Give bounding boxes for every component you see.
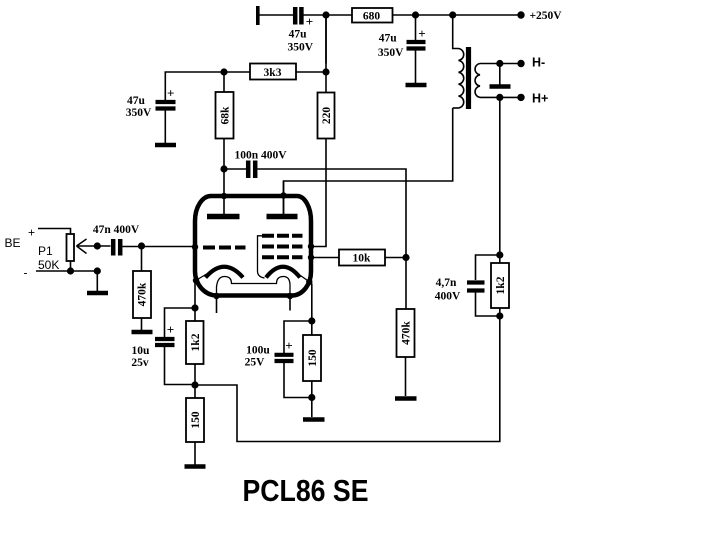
node: 10u top junction xyxy=(191,304,198,311)
svg-text:3k3: 3k3 xyxy=(264,67,282,79)
wire triode cathode down xyxy=(194,281,196,321)
input terminal bar (B+ feed) xyxy=(256,6,260,25)
wire pentode g1 to 10k xyxy=(311,257,339,259)
resistor 1k2 (right, feedback) xyxy=(491,263,509,308)
wire rail down to 3k3 junction xyxy=(325,15,327,72)
node: 10k / 470k junction xyxy=(402,254,409,261)
P1 wiper arrow xyxy=(77,239,87,246)
svg-text:+250V: +250V xyxy=(530,10,563,22)
wire 100u top lead xyxy=(284,321,312,353)
svg-text:25V: 25V xyxy=(245,357,266,369)
capacitor C3 47u 350V (shunt, left) xyxy=(156,102,176,109)
ground (below pentode 470k) xyxy=(395,396,417,401)
wire 10k right to node xyxy=(385,257,406,259)
wire to 4,7n top xyxy=(476,255,500,280)
wire 1k2 leads xyxy=(499,255,501,263)
svg-text:4,7n: 4,7n xyxy=(436,277,457,289)
svg-text:PCL86 SE: PCL86 SE xyxy=(243,473,369,508)
wire node to 100n cap xyxy=(224,168,246,170)
wire transformer primary top lead xyxy=(453,15,459,49)
svg-text:150: 150 xyxy=(190,411,202,429)
node: grid / 470k junction xyxy=(138,242,145,249)
wire 220 top from rail xyxy=(325,15,327,64)
H- terminal dot xyxy=(517,60,524,67)
wire C2 top lead xyxy=(415,15,417,40)
wire 100u bottom lead xyxy=(284,363,312,398)
node: ground corner junction xyxy=(94,267,101,274)
resistor 680 xyxy=(352,8,393,23)
triode grid (dashed) xyxy=(203,246,246,250)
svg-text:1k2: 1k2 xyxy=(190,333,202,351)
wire 680 to +250V terminal xyxy=(393,14,522,16)
triode cathode arc xyxy=(206,267,244,278)
node: 3k3 / 220 junction xyxy=(322,68,329,75)
wire C3 to ground xyxy=(164,111,166,144)
svg-text:150: 150 xyxy=(307,349,319,367)
capacitor 100n 400V xyxy=(248,161,255,179)
pin dot: pentode g1 xyxy=(308,254,314,260)
transformer primary winding xyxy=(459,49,464,109)
svg-text:10k: 10k xyxy=(353,253,372,265)
ground (input) xyxy=(87,291,108,296)
resistor 220 xyxy=(318,93,335,139)
svg-text:1k2: 1k2 xyxy=(495,276,507,294)
wire 150 bottom to ground xyxy=(194,442,196,465)
H+ terminal dot xyxy=(517,94,524,101)
svg-text:400V: 400V xyxy=(435,290,461,302)
resistor 3k3 xyxy=(250,64,296,80)
pentode anode plate xyxy=(267,214,298,220)
ground (below right 150) xyxy=(303,417,325,422)
wire C2 bottom to ground xyxy=(415,51,417,84)
svg-text:+: + xyxy=(167,322,174,337)
node: 100u top junction xyxy=(308,317,315,324)
capacitor C1 47u 350V (series, top-left) xyxy=(295,7,301,25)
wire H+ line xyxy=(480,96,521,98)
wire down to ground xyxy=(311,398,313,418)
wire down to input ground xyxy=(96,271,98,291)
svg-text:100n 400V: 100n 400V xyxy=(234,149,287,161)
wire terminal to C1 xyxy=(259,14,293,16)
svg-text:68k: 68k xyxy=(219,106,231,125)
svg-text:470k: 470k xyxy=(137,282,149,306)
capacitor 4,7n 400V xyxy=(467,283,485,291)
node: H- junction xyxy=(496,60,503,67)
+250V terminal dot xyxy=(517,11,524,18)
wire 10u bottom lead xyxy=(165,347,196,385)
svg-text:+: + xyxy=(418,26,425,41)
svg-text:+: + xyxy=(167,85,174,100)
pin dot: pentode g2 xyxy=(308,243,314,249)
tube PCL86 envelope xyxy=(195,196,311,296)
wire H- line xyxy=(480,63,521,65)
svg-text:-: - xyxy=(24,266,28,280)
wire 1k2 bottom to node xyxy=(194,364,196,398)
svg-text:47u: 47u xyxy=(127,95,146,107)
capacitor 10u 25v xyxy=(155,339,175,345)
node: triode anode / 100n junction xyxy=(220,165,227,172)
pentode cathode arc xyxy=(266,267,300,278)
wire wiper to 47n xyxy=(77,245,111,247)
ground (below 470k) xyxy=(132,330,153,335)
wire 10u top lead xyxy=(165,308,196,337)
pentode grid g1 (dashed) xyxy=(262,255,303,259)
wire 470k top lead xyxy=(141,246,143,271)
BE + input wire to pot top xyxy=(38,229,71,235)
heater filament xyxy=(217,277,291,296)
svg-text:+: + xyxy=(28,226,35,240)
resistor 1k2 (triode cathode) xyxy=(186,321,204,364)
pentode grid g2 (dashed) xyxy=(262,245,303,249)
svg-text:47n 400V: 47n 400V xyxy=(93,224,140,236)
svg-text:350V: 350V xyxy=(378,47,404,59)
svg-text:H+: H+ xyxy=(532,92,548,106)
capacitor C2 47u 350V (shunt, right) xyxy=(407,42,426,49)
wire feedback path to cathode network xyxy=(195,316,500,442)
pentode cathode lead (inside) xyxy=(298,274,310,282)
svg-text:50K: 50K xyxy=(38,258,59,272)
resistor 150 (left) xyxy=(186,398,204,442)
node: top of 1k2/4.7n xyxy=(496,251,503,258)
node: 100u bottom junction xyxy=(308,394,315,401)
svg-text:47u: 47u xyxy=(379,33,398,45)
pentode grid g3 (dashed) xyxy=(262,234,303,238)
resistor 68k xyxy=(216,92,234,139)
svg-text:P1: P1 xyxy=(38,244,53,258)
svg-text:350V: 350V xyxy=(288,41,314,53)
wire 470k bottom to ground xyxy=(405,357,407,396)
ground (below C3) xyxy=(155,143,176,148)
svg-text:BE: BE xyxy=(5,236,21,250)
wire junction down to 220 xyxy=(325,72,327,93)
capacitor 100u 25V xyxy=(275,355,294,361)
node: 68k top junction xyxy=(220,68,227,75)
pin dot: triode anode xyxy=(221,193,227,199)
ground (below C2) xyxy=(406,83,427,88)
wire 68k bottom to anode node xyxy=(223,139,225,170)
wire pot bottom lead xyxy=(70,261,72,271)
g3 to cathode tie xyxy=(258,236,265,278)
svg-text:220: 220 xyxy=(321,107,333,125)
wire 220 bottom to g2 pin xyxy=(311,139,326,247)
node: rail junction above transformer xyxy=(449,11,456,18)
svg-text:+: + xyxy=(285,338,292,353)
ground (heater) xyxy=(490,84,511,89)
pin dot: triode cathode xyxy=(193,277,199,283)
wire H- junction to ground xyxy=(499,64,501,85)
wire 3k3 left to C3 top xyxy=(165,72,250,100)
wire 150 leads xyxy=(311,321,313,335)
resistor 150 (pentode cathode) xyxy=(303,335,321,381)
svg-text:100u: 100u xyxy=(246,345,270,357)
svg-text:350V: 350V xyxy=(126,107,152,119)
svg-text:25v: 25v xyxy=(131,357,149,369)
heater pin stub right xyxy=(289,296,291,311)
node: bottom of 1k2/4.7n xyxy=(496,312,503,319)
pentode anode lead xyxy=(283,181,285,216)
potentiometer P1 50K body xyxy=(67,234,75,261)
svg-text:47u: 47u xyxy=(289,29,308,41)
node: wiper junction xyxy=(94,242,101,249)
wire pentode cathode down xyxy=(309,282,312,321)
heater pin stub left xyxy=(216,296,218,313)
pin dot: triode grid xyxy=(192,244,198,250)
resistor 470k (grid leak) xyxy=(133,271,151,318)
wire 4,7n bottom xyxy=(476,293,500,317)
node: cathode network junction xyxy=(191,381,198,388)
pin dot: heater left xyxy=(213,293,219,299)
svg-text:H-: H- xyxy=(532,56,545,70)
resistor 470k (pentode grid) xyxy=(397,309,415,357)
pin dot: pentode anode xyxy=(280,192,286,198)
wire primary bottom lead xyxy=(453,107,459,109)
node: H+ junction xyxy=(496,94,503,101)
wire 100n to vertical drop xyxy=(258,169,407,309)
node: pot bottom junction xyxy=(67,267,74,274)
resistor 10k xyxy=(339,250,385,266)
triode cathode lead (inside) xyxy=(197,274,208,281)
triode anode lead xyxy=(223,169,225,216)
wire pentode anode to transformer primary xyxy=(284,108,453,216)
wire 47n to triode grid xyxy=(123,246,197,248)
transformer core xyxy=(466,47,471,109)
wire 470k bottom to ground xyxy=(141,318,143,330)
wire 68k top lead xyxy=(223,72,225,92)
pin dot: heater right xyxy=(287,293,293,299)
svg-text:470k: 470k xyxy=(401,321,413,345)
wire H+ down to 1k2/4.7n network xyxy=(499,97,501,255)
node: rail junction above C2 xyxy=(412,11,419,18)
wire 3k3 right to junction xyxy=(296,71,326,73)
BE - input bottom wire xyxy=(36,270,97,272)
transformer secondary winding xyxy=(475,64,480,98)
svg-text:10u: 10u xyxy=(132,345,151,357)
pin dot: pentode cathode xyxy=(306,279,312,285)
svg-text:+: + xyxy=(306,14,313,29)
wire C1 to R 680 xyxy=(304,14,353,16)
ground (below left 150) xyxy=(185,464,206,469)
triode anode plate xyxy=(207,214,240,220)
capacitor 47n 400V xyxy=(113,239,120,256)
node: rail junction above 3k3 xyxy=(322,11,329,18)
svg-text:680: 680 xyxy=(363,11,381,23)
